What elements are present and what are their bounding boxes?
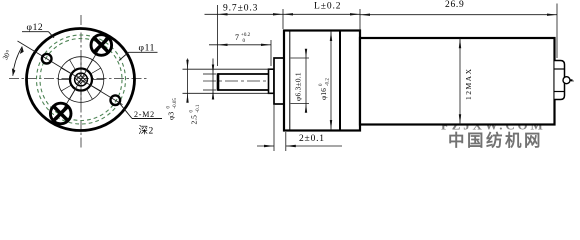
vertical centerline	[80, 15, 82, 148]
dim text phi16 rotated	[319, 78, 331, 100]
gear circle thin	[58, 57, 104, 103]
gearbox cover inner line	[289, 31, 291, 130]
screw axis line TR-BL	[57, 38, 106, 120]
dim phi6.3 vertical	[291, 50, 310, 110]
horizontal centerline	[9, 78, 148, 80]
ext line motor back	[556, 4, 558, 59]
svg-text:-0.05: -0.05	[173, 98, 178, 109]
ext line step face	[270, 40, 272, 66]
gearbox back plate line	[339, 31, 341, 130]
terminal pin	[565, 79, 573, 81]
terminal eyelet	[563, 77, 570, 84]
M2 hole BR	[111, 95, 121, 105]
gearbox body	[284, 31, 360, 131]
svg-text:-0.1: -0.1	[196, 104, 201, 112]
30 deg arc arrowheads	[20, 47, 24, 55]
svg-text:深2: 深2	[139, 126, 154, 137]
outer flange circle φ12	[27, 29, 135, 131]
svg-text:7: 7	[235, 33, 239, 42]
screw Q-BL	[50, 103, 71, 124]
shaft hatch lines	[76, 74, 86, 84]
pilot ring φ6.3	[274, 58, 284, 104]
svg-text:+0.2: +0.2	[241, 33, 251, 38]
dim 2.5 vertical	[203, 59, 216, 100]
dim text phi3 rotated	[167, 98, 179, 120]
ext line motor front	[359, 9, 361, 36]
gear spokes	[58, 57, 104, 103]
dim text 12MAX rotated	[464, 67, 473, 100]
collar φ3	[269, 69, 275, 93]
motor body	[360, 38, 555, 125]
hole axis line TL-BR	[18, 41, 123, 105]
svg-text:φ3: φ3	[167, 112, 176, 120]
screw Q-TR	[91, 35, 112, 56]
arrows dim 2±0.1	[264, 145, 296, 147]
2-M2 label leader	[119, 102, 133, 119]
terminal block	[555, 61, 565, 100]
svg-text:-0.2: -0.2	[326, 78, 331, 86]
shaft	[218, 73, 270, 90]
ext line shaft tip	[217, 5, 219, 66]
dim text phi6.3 rotated	[294, 72, 303, 101]
arrows dim 2.5	[212, 65, 214, 100]
dim phi3 vertical	[183, 59, 271, 100]
dim 2±0.1 bottom	[257, 105, 342, 151]
dim line L	[283, 13, 360, 15]
ext line gearbox front	[282, 9, 284, 29]
green dashed circle outer	[37, 35, 126, 124]
M2 hole TL	[42, 54, 52, 64]
svg-text:9.7±0.3: 9.7±0.3	[223, 4, 258, 14]
30 deg dimension arc	[13, 47, 22, 76]
svg-text:2.5: 2.5	[190, 115, 199, 125]
dim 12MAX vertical	[459, 38, 461, 125]
dim text 2.5 rotated	[190, 104, 202, 124]
svg-text:φ6.3±0.1: φ6.3±0.1	[294, 72, 303, 101]
svg-text:中国纺机网: 中国纺机网	[448, 130, 543, 150]
dim line 9.7	[205, 13, 284, 15]
arrows dim phi3	[186, 60, 188, 103]
terminal block inner lines	[555, 68, 565, 70]
green dashed circle inner	[40, 39, 122, 121]
shaft circle hatched	[75, 73, 88, 86]
arrows dim 12MAX	[459, 39, 461, 125]
svg-text:L±0.2: L±0.2	[314, 2, 341, 12]
svg-text:26.9: 26.9	[445, 0, 464, 10]
svg-text:2±0.1: 2±0.1	[299, 134, 325, 144]
svg-text:2-M2: 2-M2	[134, 110, 155, 119]
dim line 7	[209, 44, 271, 46]
arrows top dims	[218, 13, 558, 46]
svg-text:φ16: φ16	[319, 88, 328, 100]
arrows dim phi16	[330, 31, 332, 130]
dim line 26.9	[360, 14, 557, 16]
arrows dim phi6.3	[305, 49, 307, 113]
svg-text:12MAX: 12MAX	[464, 67, 473, 100]
hub circle	[70, 69, 92, 91]
side centerline	[203, 80, 577, 82]
dim phi16 vertical	[330, 31, 332, 130]
